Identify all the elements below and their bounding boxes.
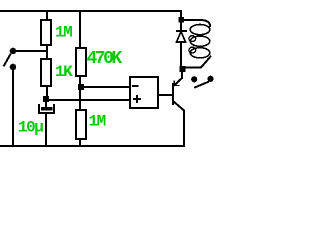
relay contact fixed dot left — [191, 76, 197, 82]
wire rail drop to node C — [180, 11, 182, 17]
wire Q1 collector to ground rail — [183, 111, 185, 147]
diode D1 triangle — [177, 32, 186, 43]
relay coil L1 left curl 1 — [189, 36, 196, 42]
svg-text:10µ: 10µ — [18, 119, 43, 137]
wire node D to Q1 emitter — [181, 72, 183, 78]
wire R2 bottom lead — [46, 86, 48, 96]
wire op-amp output to Q1 base — [158, 94, 172, 96]
relay coil L1 loop 3 — [190, 48, 210, 58]
svg-text:1M: 1M — [55, 24, 72, 42]
op-amp U1 plus input symbol — [134, 98, 140, 100]
wire D1 anode to node D — [180, 42, 182, 66]
relay coil L1 entry wire — [184, 20, 210, 26]
capacitor C1 bottom plate bracket — [39, 105, 54, 113]
wire C1 bottom lead to ground rail — [45, 114, 47, 146]
relay coil L1 loop 1 — [190, 25, 210, 35]
wire node A down to R4 — [79, 90, 81, 110]
resistor R2 1K body — [41, 59, 51, 86]
switch S1 upper contact dot — [10, 48, 17, 55]
diode D1 cathode bar — [177, 30, 186, 32]
wire node C to D1 cathode — [180, 23, 182, 30]
wire switch to divider node — [13, 50, 47, 52]
op-amp U1 minus input symbol — [133, 85, 138, 87]
relay contact lever — [195, 82, 208, 87]
svg-text:1M: 1M — [89, 113, 106, 131]
node C junction (rail / D1 / coil top) — [179, 17, 185, 23]
wire C1 top lead — [45, 102, 47, 107]
relay coil L1 left curl 2 — [189, 47, 196, 53]
relay coil L1 exit wire — [185, 57, 211, 68]
svg-text:470K: 470K — [87, 49, 123, 69]
capacitor C1 top plate — [41, 107, 53, 111]
node D junction (D1 / coil bottom / Q1 emitter) — [180, 66, 186, 72]
wire R3 top lead from supply rail — [79, 11, 81, 48]
wire R4 bottom lead to ground rail — [79, 139, 81, 146]
svg-text:1K: 1K — [55, 63, 73, 81]
relay coil L1 loop 2 — [190, 36, 210, 46]
node B junction (1K / C1 / + input) — [43, 96, 49, 102]
resistor R4 1M body — [76, 110, 86, 139]
node A junction (470K / 1M / - input) — [78, 84, 84, 90]
transistor Q1 base bar — [172, 84, 174, 104]
relay contact fixed dot right — [207, 76, 213, 82]
wire bottom ground rail — [0, 145, 184, 147]
transistor Q1 collector diagonal — [173, 101, 184, 111]
switch S1 lever — [4, 55, 10, 66]
wire switch lower contact to ground rail — [12, 69, 14, 146]
op-amp U1 body — [130, 77, 158, 108]
resistor R3 470K body — [76, 48, 86, 76]
wire R1 top lead — [46, 11, 48, 20]
transistor Q1 emitter diagonal — [174, 78, 182, 86]
wire node B to op-amp + input — [49, 99, 130, 101]
resistor R1 1M body — [41, 20, 51, 45]
transistor Q1 emitter arrow — [174, 81, 179, 86]
wire top supply rail — [0, 10, 181, 12]
switch S1 lower contact dot — [10, 64, 17, 71]
wire R3 bottom lead — [79, 76, 81, 84]
wire node A to op-amp - input — [84, 86, 130, 88]
wire R1 bottom lead to 1K — [46, 45, 48, 59]
